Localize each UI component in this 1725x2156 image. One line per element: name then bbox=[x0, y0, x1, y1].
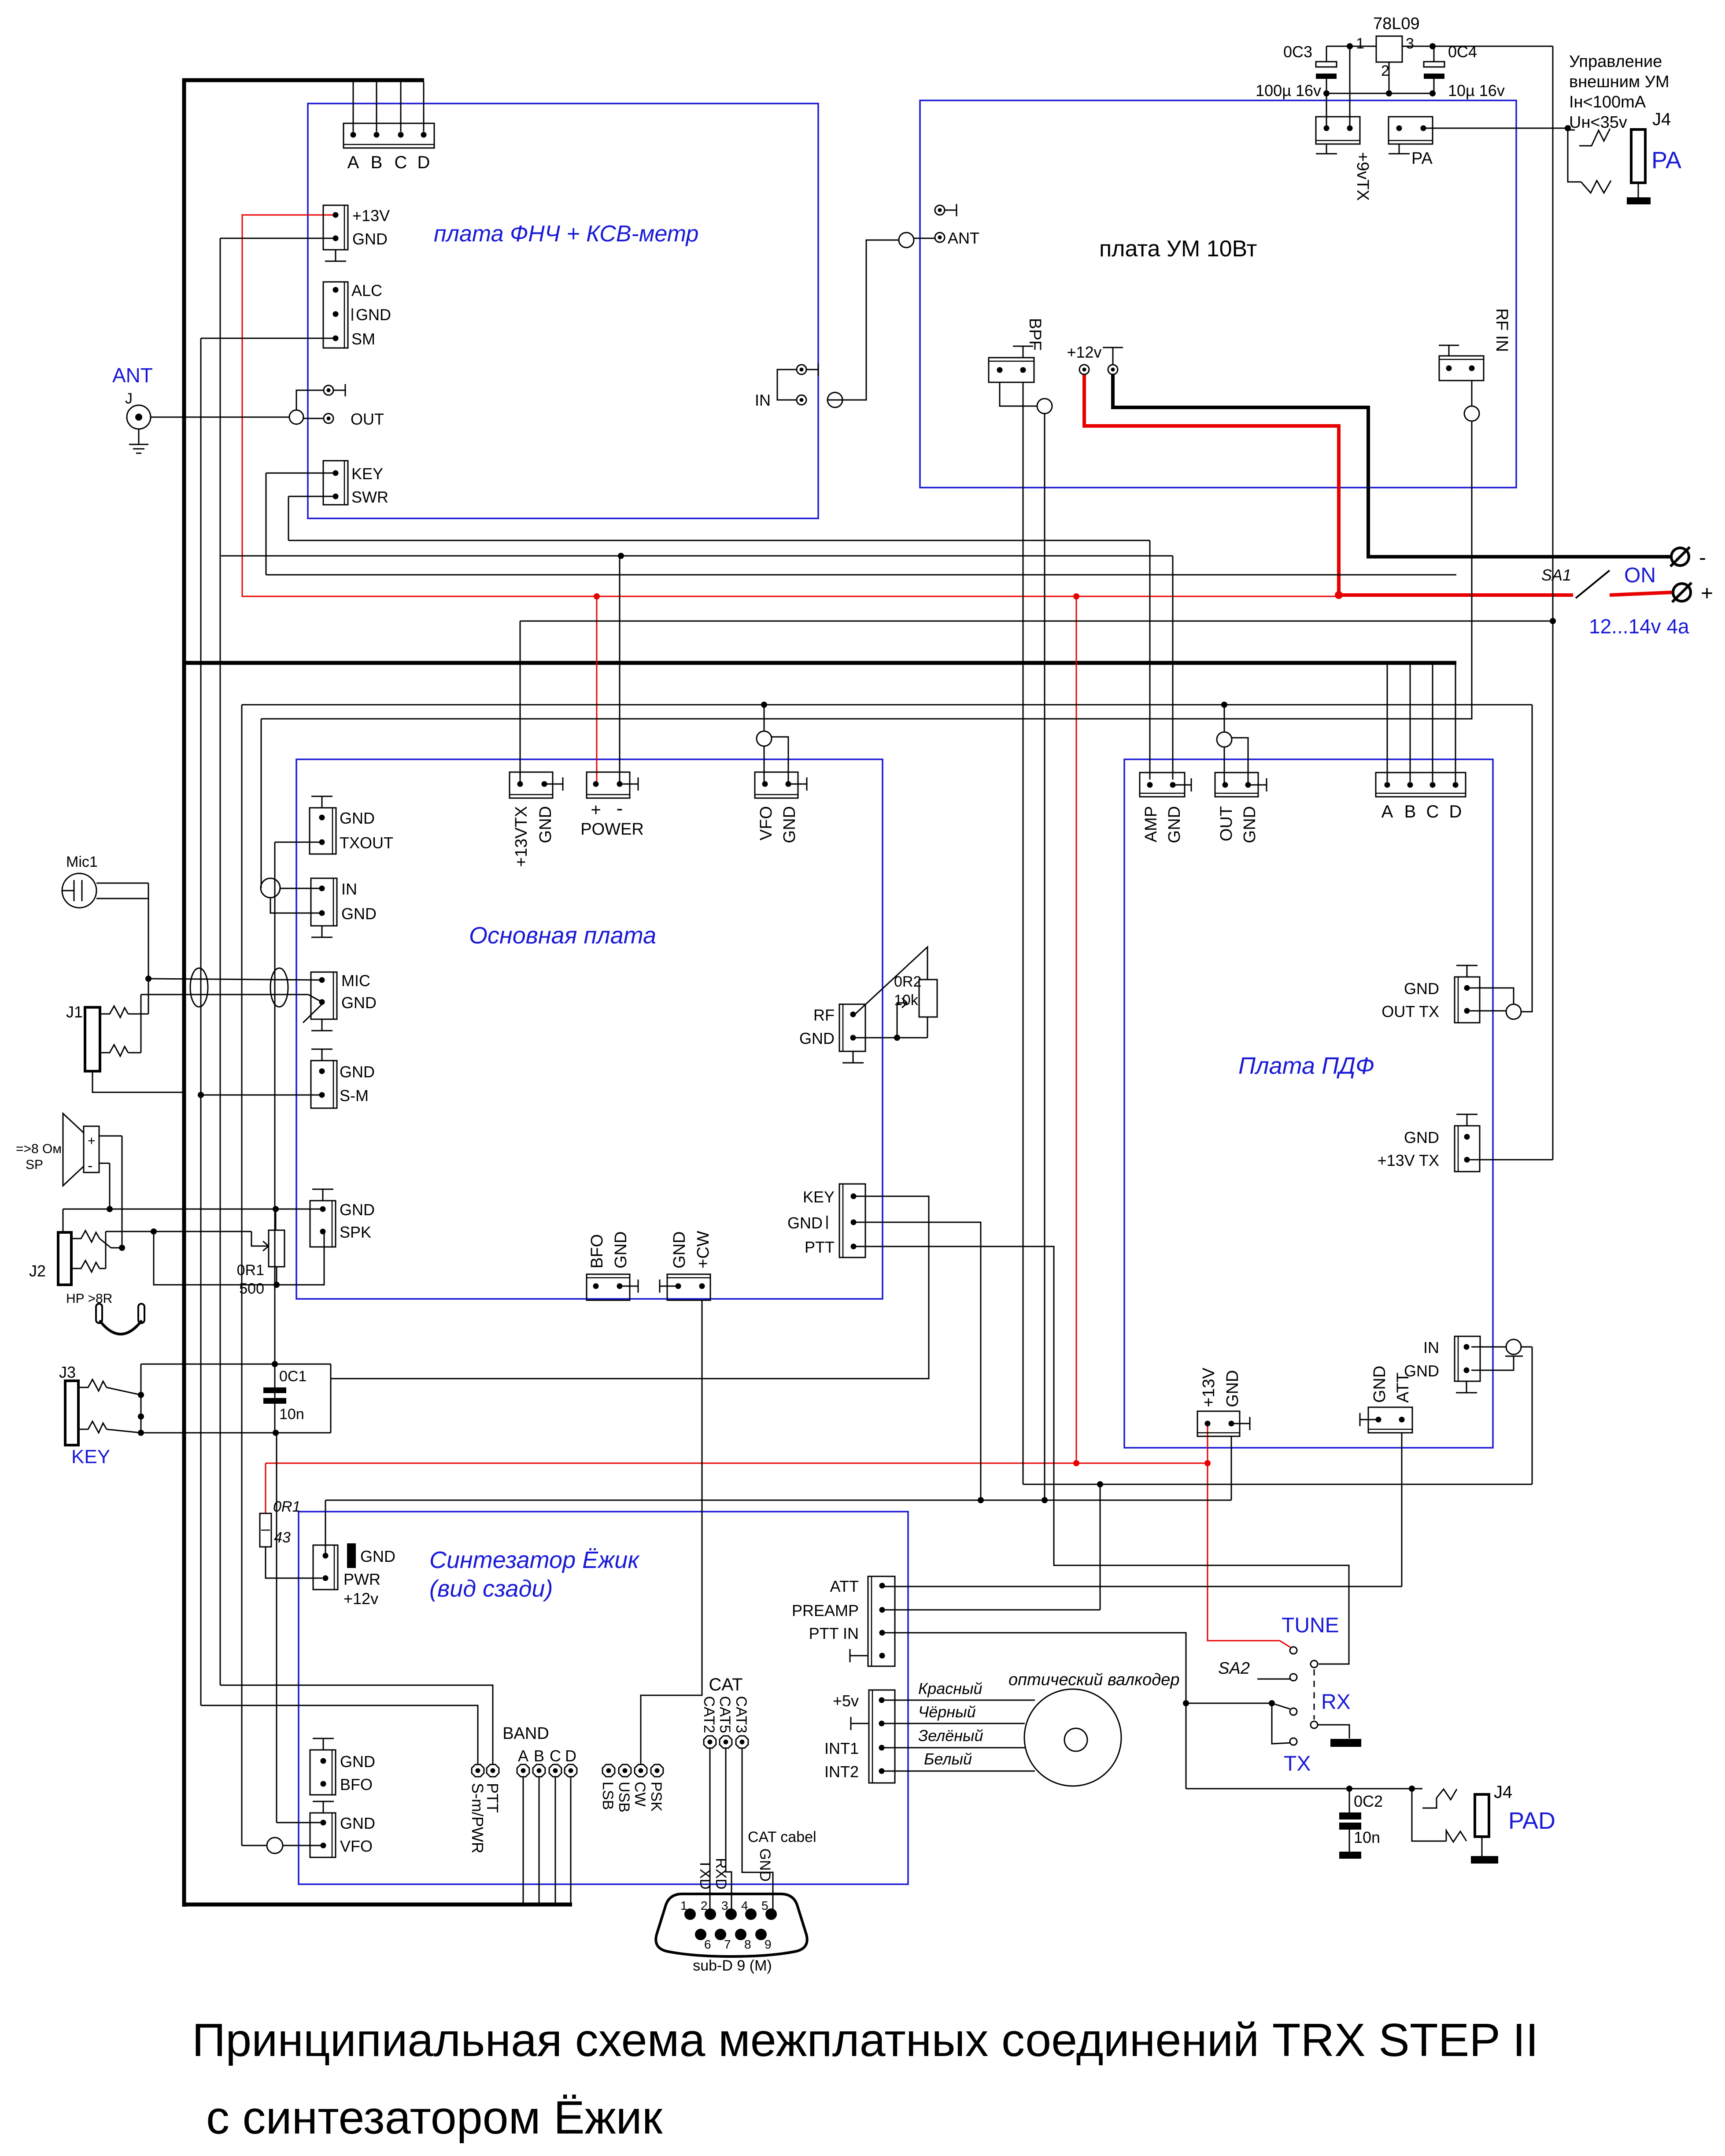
svg-text:PWR: PWR bbox=[344, 1570, 380, 1588]
svg-text:A: A bbox=[1381, 802, 1393, 821]
svg-text:=>8 Ом: =>8 Ом bbox=[16, 1142, 62, 1156]
svg-text:Uн<35v: Uн<35v bbox=[1569, 113, 1627, 132]
svg-text:GND: GND bbox=[340, 1063, 375, 1081]
svg-text:SPK: SPK bbox=[340, 1223, 371, 1241]
svg-text:GND: GND bbox=[1223, 1370, 1242, 1407]
svg-text:оптический валкодер: оптический валкодер bbox=[1008, 1671, 1179, 1689]
svg-text:TXOUT: TXOUT bbox=[340, 834, 393, 852]
svg-text:1: 1 bbox=[680, 1899, 687, 1912]
svg-text:0R1: 0R1 bbox=[237, 1262, 264, 1279]
svg-text:RX: RX bbox=[1321, 1690, 1351, 1714]
svg-text:GND: GND bbox=[341, 994, 377, 1012]
svg-text:A: A bbox=[518, 1747, 528, 1765]
svg-text:Зелёный: Зелёный bbox=[918, 1727, 983, 1745]
svg-text:D: D bbox=[565, 1747, 576, 1765]
svg-text:-: - bbox=[88, 1158, 92, 1174]
svg-text:3: 3 bbox=[721, 1899, 728, 1912]
svg-text:VFO: VFO bbox=[757, 806, 776, 840]
svg-text:плата УМ 10Вт: плата УМ 10Вт bbox=[1099, 236, 1257, 262]
svg-text:GND: GND bbox=[799, 1029, 835, 1047]
svg-text:GND: GND bbox=[360, 1547, 395, 1565]
svg-text:C: C bbox=[395, 153, 407, 172]
svg-text:IN: IN bbox=[1423, 1339, 1439, 1357]
svg-text:BFO: BFO bbox=[340, 1775, 373, 1794]
svg-text:+CW: +CW bbox=[694, 1231, 713, 1268]
svg-text:0C4: 0C4 bbox=[1448, 43, 1477, 61]
svg-text:9: 9 bbox=[765, 1938, 772, 1951]
svg-text:CAT5: CAT5 bbox=[717, 1696, 733, 1733]
svg-text:IN: IN bbox=[755, 391, 771, 409]
svg-text:Основная плата: Основная плата bbox=[469, 922, 656, 949]
svg-text:GND: GND bbox=[1404, 980, 1439, 998]
svg-text:+: + bbox=[1701, 582, 1713, 605]
svg-text:S-M: S-M bbox=[340, 1087, 369, 1105]
svg-text:ANT: ANT bbox=[948, 229, 979, 247]
svg-text:HP >8R: HP >8R bbox=[66, 1291, 112, 1306]
svg-text:D: D bbox=[417, 153, 430, 172]
svg-text:10n: 10n bbox=[1354, 1828, 1380, 1846]
svg-text:TXD: TXD bbox=[697, 1860, 713, 1890]
svg-text:POWER: POWER bbox=[580, 820, 644, 839]
svg-text:GND: GND bbox=[612, 1231, 630, 1268]
svg-text:6: 6 bbox=[704, 1938, 711, 1951]
svg-text:SM: SM bbox=[351, 330, 375, 348]
svg-text:GND: GND bbox=[340, 809, 375, 827]
svg-text:GND: GND bbox=[1165, 806, 1184, 843]
svg-text:OUT TX: OUT TX bbox=[1381, 1002, 1439, 1021]
svg-text:J4: J4 bbox=[1652, 110, 1671, 129]
svg-text:INT2: INT2 bbox=[824, 1763, 859, 1781]
svg-text:0C3: 0C3 bbox=[1283, 43, 1312, 61]
svg-text:OUT: OUT bbox=[351, 410, 384, 428]
svg-text:J3: J3 bbox=[59, 1363, 76, 1381]
svg-text:J4: J4 bbox=[1494, 1782, 1512, 1802]
svg-text:ATT: ATT bbox=[830, 1577, 859, 1595]
svg-text:+: + bbox=[88, 1134, 96, 1148]
svg-text:GND: GND bbox=[670, 1231, 689, 1268]
svg-text:Синтезатор Ёжик: Синтезатор Ёжик bbox=[429, 1547, 640, 1573]
svg-text:INT1: INT1 bbox=[824, 1739, 859, 1757]
svg-text:1: 1 bbox=[1356, 35, 1364, 52]
svg-text:GND: GND bbox=[536, 806, 555, 843]
svg-text:+13V: +13V bbox=[1200, 1368, 1218, 1407]
svg-text:SA2: SA2 bbox=[1218, 1659, 1250, 1678]
svg-text:VFO: VFO bbox=[340, 1837, 373, 1855]
svg-text:+12v: +12v bbox=[1067, 343, 1101, 361]
svg-text:+9vTX: +9vTX bbox=[1353, 152, 1372, 201]
svg-text:A: A bbox=[347, 153, 359, 172]
svg-text:10n: 10n bbox=[279, 1406, 304, 1423]
svg-text:500: 500 bbox=[239, 1280, 264, 1297]
svg-text:OUT: OUT bbox=[1217, 806, 1236, 841]
svg-text:GND: GND bbox=[1370, 1366, 1389, 1403]
svg-text:CAT cabel: CAT cabel bbox=[748, 1829, 816, 1845]
svg-text:PTT: PTT bbox=[484, 1783, 502, 1813]
svg-text:0C1: 0C1 bbox=[279, 1368, 307, 1385]
svg-text:78L09: 78L09 bbox=[1373, 15, 1420, 33]
svg-text:SP: SP bbox=[26, 1158, 43, 1172]
svg-text:+13V TX: +13V TX bbox=[1378, 1151, 1439, 1169]
svg-text:IN: IN bbox=[341, 880, 357, 898]
svg-text:PSK: PSK bbox=[648, 1782, 665, 1812]
svg-text:B: B bbox=[1404, 802, 1416, 821]
svg-text:Iн<100mA: Iн<100mA bbox=[1569, 93, 1646, 111]
svg-text:MIC: MIC bbox=[341, 972, 370, 990]
svg-text:(вид сзади): (вид сзади) bbox=[429, 1575, 553, 1602]
svg-text:D: D bbox=[1449, 802, 1462, 821]
svg-text:CAT2: CAT2 bbox=[701, 1696, 717, 1733]
svg-text:PA: PA bbox=[1651, 147, 1681, 174]
svg-text:GND: GND bbox=[340, 1814, 375, 1832]
svg-text:Mic1: Mic1 bbox=[66, 854, 98, 870]
svg-text:CW: CW bbox=[632, 1782, 648, 1807]
svg-text:TX: TX bbox=[1284, 1752, 1311, 1775]
svg-text:+: + bbox=[591, 800, 601, 820]
svg-text:2: 2 bbox=[1381, 63, 1389, 79]
svg-text:GND: GND bbox=[352, 230, 388, 248]
svg-text:TUNE: TUNE bbox=[1282, 1614, 1339, 1637]
svg-text:SA1: SA1 bbox=[1541, 566, 1571, 584]
svg-text:KEY: KEY bbox=[803, 1188, 835, 1206]
svg-text:LSB: LSB bbox=[599, 1782, 616, 1810]
svg-text:B: B bbox=[534, 1747, 544, 1765]
svg-text:ON: ON bbox=[1624, 564, 1656, 587]
svg-text:SWR: SWR bbox=[351, 488, 388, 506]
svg-text:10k: 10k bbox=[894, 992, 919, 1009]
svg-text:CAT3: CAT3 bbox=[733, 1696, 750, 1733]
svg-text:AMP: AMP bbox=[1142, 806, 1160, 842]
svg-text:0R2: 0R2 bbox=[894, 973, 921, 990]
svg-text:PTT IN: PTT IN bbox=[809, 1624, 859, 1642]
svg-text:PREAMP: PREAMP bbox=[792, 1601, 859, 1620]
svg-text:USB: USB bbox=[616, 1782, 632, 1812]
svg-text:J1: J1 bbox=[66, 1003, 83, 1021]
svg-text:GND: GND bbox=[356, 306, 391, 324]
svg-text:GND: GND bbox=[780, 806, 799, 843]
svg-text:PAD: PAD bbox=[1508, 1808, 1555, 1834]
svg-text:GND: GND bbox=[341, 905, 377, 923]
svg-text:GND: GND bbox=[340, 1201, 375, 1219]
svg-text:J2: J2 bbox=[29, 1262, 46, 1280]
svg-text:J: J bbox=[125, 390, 133, 407]
svg-text:C: C bbox=[1426, 802, 1439, 821]
svg-text:KEY: KEY bbox=[351, 465, 383, 483]
svg-text:GND: GND bbox=[340, 1753, 375, 1771]
svg-text:+12v: +12v bbox=[344, 1590, 378, 1608]
svg-text:BFO: BFO bbox=[588, 1234, 606, 1268]
svg-text:Плата ПДФ: Плата ПДФ bbox=[1238, 1053, 1374, 1079]
svg-text:плата ФНЧ + КСВ-метр: плата ФНЧ + КСВ-метр bbox=[434, 221, 698, 247]
svg-text:+13V: +13V bbox=[352, 207, 390, 225]
svg-text:Красный: Красный bbox=[918, 1679, 983, 1697]
svg-text:5: 5 bbox=[761, 1899, 768, 1912]
svg-text:внешним УМ: внешним УМ bbox=[1569, 73, 1669, 91]
svg-text:Управление: Управление bbox=[1569, 52, 1662, 71]
svg-text:Чёрный: Чёрный bbox=[918, 1703, 976, 1721]
svg-text:-: - bbox=[617, 798, 623, 819]
svg-text:12...14v 4a: 12...14v 4a bbox=[1589, 615, 1689, 638]
svg-text:GND: GND bbox=[1404, 1128, 1439, 1146]
svg-text:Принципиальная схема межплатны: Принципиальная схема межплатных соединен… bbox=[192, 2014, 1538, 2066]
svg-text:RXD: RXD bbox=[713, 1858, 729, 1890]
svg-text:100µ 16v: 100µ 16v bbox=[1256, 81, 1321, 100]
svg-text:2: 2 bbox=[701, 1899, 708, 1912]
svg-text:-: - bbox=[1699, 546, 1706, 570]
svg-text:4: 4 bbox=[741, 1899, 748, 1912]
svg-text:Белый: Белый bbox=[924, 1750, 972, 1768]
svg-text:8: 8 bbox=[744, 1938, 751, 1951]
svg-text:PTT: PTT bbox=[805, 1238, 835, 1256]
svg-text:RF IN: RF IN bbox=[1492, 308, 1511, 352]
svg-text:GND: GND bbox=[757, 1848, 773, 1882]
svg-text:B: B bbox=[371, 153, 383, 172]
svg-text:GND: GND bbox=[1241, 806, 1259, 843]
svg-text:0C2: 0C2 bbox=[1354, 1792, 1383, 1810]
svg-text:sub-D 9 (M): sub-D 9 (M) bbox=[693, 1957, 772, 1974]
svg-text:+13VTX: +13VTX bbox=[512, 806, 531, 867]
svg-text:+5v: +5v bbox=[833, 1692, 859, 1710]
svg-text:ANT: ANT bbox=[112, 364, 153, 387]
svg-text:3: 3 bbox=[1406, 35, 1414, 52]
svg-text:ALC: ALC bbox=[351, 281, 382, 300]
svg-text:KEY: KEY bbox=[71, 1446, 110, 1468]
svg-text:ATT: ATT bbox=[1394, 1372, 1412, 1403]
svg-text:CAT: CAT bbox=[709, 1675, 742, 1694]
svg-text:C: C bbox=[550, 1747, 561, 1765]
svg-text:7: 7 bbox=[724, 1938, 731, 1951]
svg-text:RF: RF bbox=[813, 1006, 835, 1024]
svg-text:10µ 16v: 10µ 16v bbox=[1448, 81, 1505, 100]
svg-text:PA: PA bbox=[1411, 149, 1433, 168]
svg-text:BAND: BAND bbox=[502, 1724, 549, 1743]
svg-text:с синтезатором Ёжик: с синтезатором Ёжик bbox=[206, 2092, 663, 2144]
svg-text:GND: GND bbox=[787, 1214, 823, 1232]
